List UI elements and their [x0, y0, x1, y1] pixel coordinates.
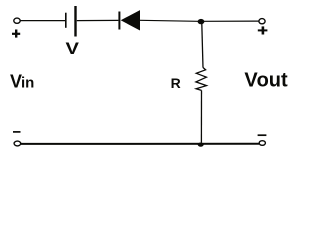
svg-text:in: in — [21, 75, 34, 92]
svg-text:V: V — [65, 39, 79, 58]
svg-text:R: R — [171, 75, 181, 91]
svg-text:out: out — [257, 70, 288, 92]
